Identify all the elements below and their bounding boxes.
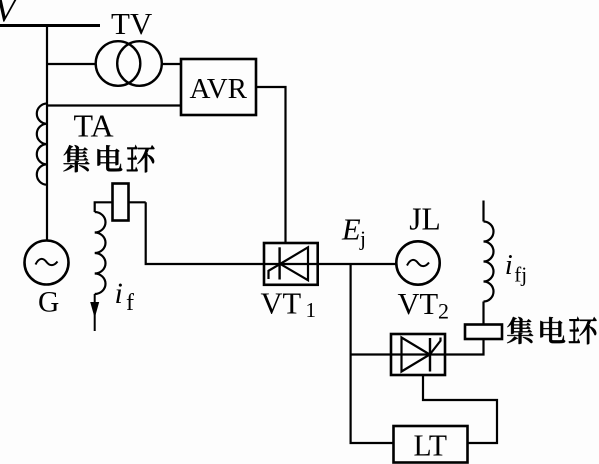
label 集电环 (left collector ring) [63,145,154,172]
wire to TV primary [47,63,97,65]
svg-text:JL: JL [409,202,441,237]
arrow i_f current direction [94,294,96,331]
wire branch to thyristor VT3 [351,353,391,355]
thyristor rectifier VT1 [264,243,318,285]
svg-text:i: i [505,249,513,281]
generator field winding coil [95,212,106,294]
regulator AVR [181,59,256,115]
generator G [25,241,69,285]
wire AVR output to VT1 [256,87,286,243]
wire VT3 to right collector ring [445,339,484,355]
transformer TV [96,41,141,86]
svg-text:i: i [115,277,123,310]
svg-text:G: G [38,287,59,319]
exciter JL [396,241,439,284]
svg-text:j: j [359,226,366,250]
wire VT3 bottom to LT [423,375,497,443]
wire field lead left [95,202,146,212]
svg-text:1: 1 [306,298,317,322]
wire Ej junction down to LT [351,264,394,443]
collector ring brush (generator field) [113,184,129,221]
wire to rectifier VT1 [146,202,264,264]
svg-text:2: 2 [438,298,449,323]
collector ring brush (exciter field) [465,325,502,340]
exciter field winding coil [482,201,484,222]
svg-text:TV: TV [111,6,153,41]
svg-text:VT: VT [261,287,302,321]
wire TA signal to AVR [47,104,181,106]
svg-text:f: f [126,290,134,316]
svg-text:fj: fj [514,262,527,286]
svg-text:LT: LT [414,428,448,463]
wire through VT3 [391,353,445,355]
svg-text:TA: TA [74,108,114,144]
thyristor VT3 [391,334,445,375]
svg-text:AVR: AVR [190,73,248,105]
svg-text:E: E [341,212,361,246]
current transformer TA coil [37,104,47,185]
wire through VT1 [264,263,318,265]
wire busbar [0,24,100,27]
wire VT1 to exciter JL [318,263,396,265]
wire bus tap to generator [46,26,48,241]
svg-text:VT: VT [398,287,439,321]
wire TV to AVR [162,63,182,65]
label 集电环 (right collector ring) [507,317,596,344]
de-excitation unit LT [394,426,468,463]
